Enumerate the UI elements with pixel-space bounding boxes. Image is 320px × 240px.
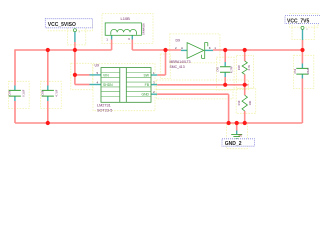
svg-text:K: K — [209, 46, 211, 50]
highlight box for SW wire branch — [160, 54, 170, 79]
highlight box for resistor R19 — [236, 88, 256, 113]
svg-text:L10B: L10B — [121, 16, 131, 21]
wire SHDN branch horizontal — [75, 84, 90, 86]
svg-text:10K: 10K — [248, 100, 252, 105]
wire SW branch horizontal — [157, 74, 165, 76]
svg-text:U9: U9 — [95, 64, 100, 68]
pin stub C52 top — [301, 64, 303, 69]
svg-text:VCC_7V5: VCC_7V5 — [287, 18, 309, 24]
junction dot bottom-ground — [235, 121, 239, 125]
svg-text:SHDN: SHDN — [103, 83, 113, 87]
pin stub SW pin 1 — [151, 74, 157, 76]
wire VIN branch vertical — [74, 50, 76, 85]
resistor R19 zigzag — [242, 95, 247, 111]
pin stub SHDN pin 4 — [90, 84, 102, 86]
pin stub diode cathode — [205, 49, 213, 51]
wire FB node horizontal — [157, 84, 248, 86]
svg-text:10UF: 10UF — [306, 68, 310, 75]
wire bottom rail — [15, 122, 302, 124]
wire GND pin vertical — [228, 94, 230, 123]
power port circle VCC_5VISO — [73, 29, 76, 32]
junction dot bottom-GNDpin — [227, 121, 231, 125]
svg-text:C52: C52 — [293, 68, 297, 73]
net label VCC_7V5 box — [285, 16, 320, 24]
wire C52 branch lower — [301, 79, 303, 124]
pin stub ground — [236, 131, 238, 135]
highlight box for ground symbol — [227, 124, 248, 149]
junction dot bottom-R19 — [243, 121, 247, 125]
wire GND pin horizontal — [157, 93, 228, 95]
wire output rail — [213, 49, 303, 51]
pin stub C52 bottom — [301, 74, 303, 78]
svg-text:SRN4026: SRN4026 — [142, 23, 146, 35]
capacitor C52 plates — [296, 68, 308, 74]
wire R19 branch upper — [244, 85, 246, 95]
diode D9 triangle — [187, 43, 204, 59]
wire C43 branch upper — [224, 50, 226, 62]
junction dot rail-port 7V5 — [300, 48, 304, 52]
junction dot rail-C43 — [223, 48, 227, 52]
highlight box for capacitor C69 — [9, 81, 30, 108]
pin stub VIN pin 5 — [90, 74, 102, 76]
pin stub inductor pin 6 — [131, 35, 133, 39]
wire port VCC_7V5 to rail — [302, 40, 304, 50]
highlight box for FB wire — [157, 80, 249, 90]
wire C43 branch lower — [224, 77, 226, 85]
junction dot rail-R18 — [243, 48, 247, 52]
pin stub C43 bottom — [224, 72, 226, 77]
wire C68 branch lower — [47, 101, 49, 123]
capacitor C68 plates — [42, 90, 54, 96]
wire left drop lower — [14, 101, 16, 123]
wire rail inductor to diode — [132, 49, 181, 51]
svg-text:SOT23-5: SOT23-5 — [97, 108, 112, 112]
svg-text:R19: R19 — [237, 100, 241, 105]
pin stub C43 top — [224, 62, 226, 66]
svg-text:MBRA140LT3: MBRA140LT3 — [170, 60, 191, 64]
junction dot FB-C43 — [223, 83, 227, 87]
pin stub C69 top — [14, 86, 16, 91]
highlight box for inductor L10B — [102, 14, 153, 44]
svg-text:FB: FB — [145, 83, 150, 87]
pin stub diode anode — [181, 49, 187, 51]
net label GND_2 box — [222, 139, 255, 146]
wire inductor left leg — [111, 40, 113, 51]
wire R18 branch upper — [244, 50, 246, 61]
wire C68 branch upper — [47, 50, 49, 86]
svg-text:PE: PE — [239, 134, 243, 138]
svg-text:D9: D9 — [176, 39, 181, 43]
svg-text:C69: C69 — [8, 90, 12, 95]
svg-text:VCC_5VISO: VCC_5VISO — [48, 22, 76, 28]
svg-text:A: A — [181, 46, 183, 50]
pin stub power port VCC_5VISO — [74, 32, 76, 42]
svg-text:GND_2: GND_2 — [225, 141, 242, 147]
junction dot rail-C68 — [46, 48, 50, 52]
svg-text:4.7UF: 4.7UF — [54, 89, 58, 96]
pin stub FB pin 3 — [151, 84, 157, 86]
svg-text:C43: C43 — [216, 67, 220, 72]
wire R18 branch lower — [244, 74, 246, 85]
pin stub GND pin 2 — [151, 93, 157, 95]
highlight box for GND pin wire — [157, 90, 234, 99]
highlight box for IC U9 — [93, 64, 155, 111]
highlight box for power port VCC_5VISO — [68, 24, 86, 45]
svg-text:4.7K: 4.7K — [247, 65, 251, 71]
svg-text:0.1UF: 0.1UF — [22, 89, 26, 96]
highlight box for resistor R18 — [237, 56, 254, 89]
svg-text:LM2731: LM2731 — [97, 104, 111, 108]
pin stub C68 top — [47, 86, 49, 91]
wire VIN branch horizontal — [75, 74, 90, 76]
wire inductor right leg — [131, 40, 133, 51]
wire C52 branch upper — [301, 50, 303, 64]
junction dot VIN-SHDN — [73, 73, 77, 77]
wire SW branch vertical — [165, 50, 167, 75]
svg-text:SW: SW — [144, 73, 150, 77]
pin stub C69 bottom — [14, 96, 16, 101]
svg-text:R18: R18 — [237, 65, 241, 70]
highlight box for VIN-SHDN wire branch — [71, 63, 93, 89]
svg-text:GND: GND — [141, 93, 149, 97]
junction dot rail-SW — [163, 48, 167, 52]
junction dot FB-R18-R19 — [243, 83, 247, 87]
svg-text:4.7PF: 4.7PF — [230, 66, 234, 73]
wire ground stem — [236, 123, 238, 131]
ground symbol bars — [231, 135, 242, 139]
net label VCC_5VISO box — [45, 19, 92, 28]
pin stub inductor pin 1 — [111, 35, 113, 39]
svg-text:VIN: VIN — [103, 73, 109, 77]
pin stub C68 bottom — [47, 96, 49, 101]
power port circle VCC_7V5 — [301, 26, 304, 29]
wire port VCC_5VISO to rail — [74, 42, 76, 50]
junction dot bottom-C68 — [46, 121, 50, 125]
wire top rail left — [15, 49, 112, 51]
capacitor C43 plates — [220, 67, 230, 72]
pin stub power port VCC_7V5 — [302, 30, 304, 41]
highlight box for power port VCC_7V5 — [292, 22, 314, 40]
diode D9 schottky cathode — [202, 43, 208, 59]
svg-text:C68: C68 — [41, 90, 45, 95]
op IC U9 body — [101, 68, 151, 103]
svg-text:SMC_413: SMC_413 — [170, 65, 185, 69]
highlight box for capacitor C52 — [294, 55, 314, 88]
highlight box for capacitor C68 — [41, 81, 62, 108]
highlight box for net label VCC_5VISO — [48, 21, 93, 31]
capacitor C69 plates — [9, 90, 21, 96]
highlight box for net label VCC_7V5 — [290, 14, 319, 28]
highlight box for diode D9 — [170, 34, 220, 63]
wire left drop upper (to C69) — [14, 49, 16, 85]
highlight box for capacitor C43 — [217, 57, 235, 90]
junction dot rail-port 5VISO — [73, 48, 77, 52]
wire R19 branch lower — [244, 111, 246, 123]
inductor L10B body — [105, 23, 141, 35]
resistor R18 zigzag — [242, 61, 247, 74]
